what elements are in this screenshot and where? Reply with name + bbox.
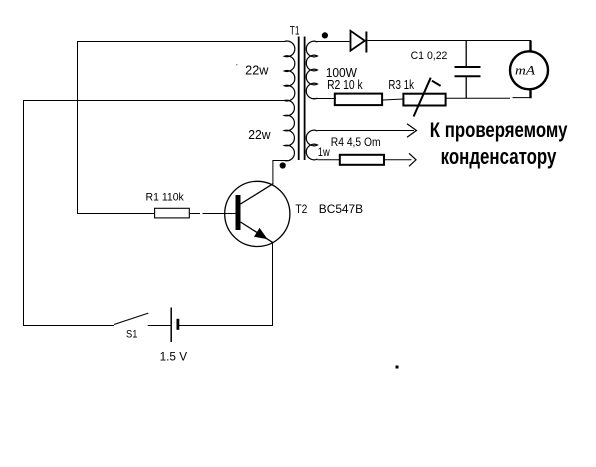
- svg-text:1w: 1w: [318, 145, 330, 159]
- wire diode to meter corner: [368, 40, 532, 42]
- stray gray speck: [236, 64, 238, 66]
- svg-text:К проверяемому: К проверяемому: [430, 118, 568, 142]
- arrow head output 1: [407, 124, 417, 137]
- wire primary center-tap horizontal: [23, 100, 285, 102]
- svg-text:BC547B: BC547B: [319, 202, 363, 216]
- switch S1 lever: [114, 313, 148, 324]
- svg-text:R2 10 k: R2 10 k: [327, 78, 363, 92]
- transistor T2 circle: [225, 181, 290, 246]
- stray period dot: [396, 366, 399, 369]
- wire emitter vertical down: [272, 242, 274, 326]
- svg-text:T2: T2: [295, 202, 307, 216]
- diode D1 triangle: [351, 31, 365, 51]
- wire bottom horizontal to switch S1: [23, 325, 114, 327]
- transformer T1 secondary winding 100W: [306, 41, 317, 99]
- capacitor C1 bottom lead: [465, 77, 467, 99]
- resistor R3 body (variable): [403, 94, 445, 106]
- wire bottom right horizontal battery to emitter: [179, 325, 273, 327]
- wire collector vertical: [272, 160, 274, 184]
- transformer T1 primary winding (22w + 22w): [285, 41, 295, 161]
- wire base segment: [203, 213, 237, 215]
- transformer core line left: [298, 37, 300, 161]
- meter top lead: [529, 41, 531, 52]
- wire R3 to C1/meter bottom: [446, 97, 511, 99]
- svg-text:C1 0,22: C1 0,22: [411, 50, 448, 62]
- resistor R2 body: [335, 94, 382, 106]
- svg-text:R4 4,5 Om: R4 4,5 Om: [331, 135, 381, 149]
- wire switch to battery: [148, 325, 171, 327]
- transistor T2 emitter arrow head: [255, 229, 267, 239]
- meter bottom lead: [529, 89, 531, 98]
- polarity dot secondary top: [322, 32, 328, 38]
- wire secondary 100W bottom to R2: [311, 98, 336, 100]
- svg-text:конденсатору: конденсатору: [441, 144, 557, 169]
- wire top-left horizontal from node B to T1 primary top: [77, 41, 285, 43]
- capacitor C1 top plate: [455, 66, 481, 68]
- resistor R1 body: [155, 208, 190, 218]
- transistor T2 emitter diagonal: [241, 222, 273, 242]
- svg-text:R1 110k: R1 110k: [146, 192, 185, 204]
- meter mA circle: [510, 51, 548, 89]
- wire R4 to output arrow: [384, 159, 412, 161]
- wire far-left vertical down to battery line: [23, 100, 25, 326]
- battery short plate: [177, 319, 180, 330]
- resistor R3 wiper T-bar: [432, 81, 441, 86]
- wire secondary top to diode: [316, 41, 350, 43]
- wire left to R1: [77, 213, 155, 215]
- svg-text:22w: 22w: [248, 128, 271, 142]
- resistor R3 wiper diagonal: [414, 78, 431, 117]
- capacitor C1 top lead: [465, 41, 467, 67]
- diode D1 cathode bar: [365, 32, 367, 53]
- wire R2 to R3: [383, 99, 404, 100]
- transformer core line right: [304, 37, 306, 161]
- svg-text:R3 1k: R3 1k: [388, 78, 414, 92]
- svg-text:mA: mA: [515, 62, 535, 77]
- transformer T1 secondary winding 1w: [306, 130, 317, 160]
- capacitor C1 bottom plate: [455, 75, 481, 77]
- wire 1w bottom to R4: [318, 159, 341, 161]
- wire left vertical from top wire down to R1: [77, 41, 79, 214]
- wire R1 to base (with break): [190, 213, 201, 215]
- resistor R4 body: [340, 155, 384, 165]
- transistor T2 base bar: [236, 195, 241, 230]
- wire 1w top to output arrow: [318, 130, 415, 132]
- svg-text:1.5 V: 1.5 V: [160, 350, 188, 364]
- arrow head output 2: [409, 153, 416, 166]
- wire primary bottom horizontal: [273, 160, 290, 162]
- svg-text:S1: S1: [126, 328, 137, 340]
- polarity dot primary bottom: [280, 162, 286, 168]
- svg-text:22w: 22w: [245, 63, 269, 77]
- transistor T2 collector diagonal: [241, 184, 273, 204]
- wire segment to meter bottom: [513, 97, 532, 99]
- battery long plate: [170, 308, 172, 343]
- svg-text:T1: T1: [290, 26, 300, 38]
